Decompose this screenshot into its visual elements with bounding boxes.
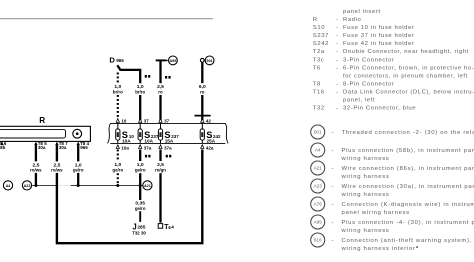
svg-text:10: 10 — [121, 119, 127, 124]
svg-text:58b: 58b — [0, 145, 6, 150]
svg-text:-: - — [336, 25, 339, 31]
fuse S237 (right) — [158, 123, 179, 143]
junction T8/5 wire — [34, 184, 37, 187]
svg-text:ro/ws: ro/ws — [30, 168, 42, 173]
fuse S237 (left) — [138, 123, 159, 143]
node D965 label — [109, 56, 124, 65]
svg-text:-: - — [336, 17, 339, 23]
wire 6,0 ro from 501 to fuse S242 — [201, 62, 203, 122]
svg-text:ro/gn: ro/gn — [155, 167, 166, 172]
svg-text:3-Pin Connector: 3-Pin Connector — [343, 57, 395, 63]
junction A21 wire — [139, 184, 142, 187]
svg-text:panel, left: panel, left — [343, 98, 375, 104]
dotted wire D to fuse S10 — [117, 73, 119, 120]
svg-text:37: 37 — [164, 119, 170, 124]
node A23 — [22, 181, 31, 190]
svg-text:37: 37 — [144, 119, 150, 124]
svg-text:for connectors, in plenum cham: for connectors, in plenum chamber, left — [343, 73, 468, 79]
svg-text:Fuse 37 in fuse holder: Fuse 37 in fuse holder — [343, 33, 415, 39]
legend node 501 — [311, 125, 325, 139]
svg-text:10A: 10A — [144, 139, 153, 144]
svg-text:-: - — [332, 238, 335, 244]
svg-text:ro: ro — [158, 89, 163, 94]
svg-text:Data Link Connector (DLC), bel: Data Link Connector (DLC), below instru- — [343, 90, 474, 96]
terminal arrow 37a (left) — [139, 145, 152, 151]
svg-text:Plus connection (58b), in inst: Plus connection (58b), in instrument pan… — [342, 148, 474, 154]
svg-text:T6: T6 — [313, 65, 321, 71]
svg-text:A99: A99 — [314, 220, 323, 225]
legend node A99 — [311, 215, 325, 229]
threaded connection symbol 501 — [200, 58, 204, 62]
connection line A23 to A21 — [32, 185, 143, 187]
svg-text:15A: 15A — [165, 139, 174, 144]
svg-text:Fuse 10 in fuse holder: Fuse 10 in fuse holder — [343, 25, 415, 31]
svg-text:-: - — [336, 57, 339, 63]
svg-text:ro: ro — [200, 89, 205, 94]
svg-text:R: R — [39, 116, 45, 125]
fuse S10 — [116, 123, 135, 143]
svg-text:Connection (anti-theft warning: Connection (anti-theft warning system), … — [342, 238, 474, 244]
svg-text:S237: S237 — [313, 33, 329, 39]
terminal arrow 37 (left) — [139, 119, 150, 124]
svg-text:A21: A21 — [144, 184, 151, 188]
svg-text:-: - — [332, 130, 335, 136]
legend node A21 — [311, 161, 325, 175]
wire S237 upper segment — [139, 95, 141, 122]
wire label 1,0 br/ro (right) — [135, 84, 145, 94]
wire T8/5 to A23 line (2,5 ro/ws) — [35, 145, 37, 185]
wire 2,5 ro from A99 bar to fuse S237 — [159, 60, 161, 121]
wire label 1,0 ge/ro (dotted) — [112, 162, 123, 172]
svg-text:T16: T16 — [313, 90, 325, 96]
svg-text:panel insert: panel insert — [343, 9, 381, 15]
svg-text:T32: T32 — [313, 106, 325, 112]
radio pin T8/6 — [0, 141, 7, 150]
svg-text:br/ro: br/ro — [135, 89, 145, 94]
top border line — [0, 18, 213, 20]
wire T8/4 to A23 line (1,0 ge/ro) — [77, 145, 79, 185]
svg-text:Radio: Radio — [343, 17, 362, 23]
wire A21 to J285 (0,35 ge/ro) — [139, 211, 141, 222]
radio R box — [0, 116, 90, 142]
svg-text:Connection (K-diagnosis wire): Connection (K-diagnosis wire) in instrum… — [342, 202, 474, 208]
junction T8/4 wire — [77, 184, 80, 187]
svg-text:-: - — [336, 33, 339, 39]
svg-text:wiring harness interior●: wiring harness interior● — [341, 244, 420, 252]
svg-text:10a: 10a — [121, 145, 129, 150]
svg-text:-: - — [336, 106, 339, 112]
svg-text:-: - — [336, 41, 339, 47]
svg-text:S242: S242 — [313, 41, 329, 47]
svg-text:A4: A4 — [315, 148, 321, 153]
svg-text:A99: A99 — [170, 59, 177, 63]
leader to A99 — [167, 59, 169, 61]
svg-text:T2a: T2a — [313, 49, 325, 55]
svg-text:S10: S10 — [313, 25, 325, 31]
radio pin T8/7 — [55, 141, 68, 150]
asterisk marks ** (upper right) — [165, 76, 171, 79]
svg-text:-: - — [332, 184, 335, 190]
terminal J285 T32/30 — [132, 222, 146, 235]
svg-text:42: 42 — [206, 119, 212, 124]
connector T6/4 — [158, 224, 174, 231]
svg-text:Wire connection (86s), in inst: Wire connection (86s), in instrument pan… — [342, 166, 474, 172]
svg-text:501: 501 — [207, 59, 213, 63]
svg-text:A76: A76 — [314, 202, 323, 207]
svg-text:6-Pin Connector, brown, in pro: 6-Pin Connector, brown, in protective ho… — [343, 65, 474, 71]
wire from D jog to fuse S237 (1,0 br/ro) — [117, 65, 140, 83]
svg-text:ge/ro: ge/ro — [112, 167, 123, 172]
svg-text:ge/ro: ge/ro — [135, 206, 146, 211]
svg-text:A23: A23 — [314, 184, 323, 189]
svg-text:-: - — [336, 65, 339, 71]
wire label 0,35 ge/ro — [135, 200, 146, 210]
svg-text:616: 616 — [314, 238, 322, 243]
legend node 616 — [311, 233, 325, 247]
wire label 2,5 ro/gn — [155, 162, 166, 172]
svg-text:30a: 30a — [38, 145, 46, 150]
svg-text:Double Connector, near headlig: Double Connector, near headlight, right — [343, 49, 469, 55]
fuse holder band — [108, 123, 229, 143]
svg-text:panel wiring harness: panel wiring harness — [342, 210, 410, 216]
svg-text:-: - — [336, 49, 339, 55]
svg-text:-: - — [332, 202, 335, 208]
svg-text:A21: A21 — [314, 166, 323, 171]
wire label 1,0 ge/ro (pin4) — [73, 162, 84, 172]
svg-text:30a: 30a — [59, 145, 67, 150]
svg-text:-: - — [332, 148, 335, 154]
svg-text:-: - — [332, 220, 335, 226]
asterisk marks ** (upper left) — [145, 75, 151, 78]
svg-text:-: - — [336, 90, 339, 96]
terminal arrow 37a (right) — [159, 145, 172, 151]
node A99 — [169, 56, 178, 65]
wire S237 to T6/4 (2,5 ro/gn) — [159, 150, 161, 223]
svg-text:25A: 25A — [207, 139, 216, 144]
svg-text:10A: 10A — [122, 139, 131, 144]
svg-text:A23: A23 — [24, 184, 31, 188]
svg-text:wiring harness: wiring harness — [341, 228, 390, 234]
leader to 501 — [204, 59, 205, 61]
asterisk marks ** (lower left) — [145, 155, 151, 158]
svg-text:wiring harness: wiring harness — [341, 156, 390, 162]
svg-text:Threaded connection -2- (30) o: Threaded connection -2- (30) on the rela… — [342, 130, 474, 136]
wire label 2,5 ro — [157, 84, 164, 94]
wire label 1,0 ge/ro — [135, 162, 146, 172]
svg-text:ge/ro: ge/ro — [73, 168, 84, 173]
wire S237 to A21 (1,0 ge/ro) — [139, 150, 141, 201]
svg-text:D: D — [109, 56, 115, 65]
svg-text:32-Pin Connector, blue: 32-Pin Connector, blue — [343, 106, 416, 112]
legend component list — [313, 9, 474, 112]
plus connection bar (A99) — [156, 59, 167, 61]
dotted wire S10 to A21 node (1,0 ge/ro) — [117, 150, 119, 185]
svg-text:wiring harness: wiring harness — [341, 192, 390, 198]
terminal arrow 42a — [201, 145, 214, 151]
svg-text:Fuse 42 in fuse holder: Fuse 42 in fuse holder — [343, 41, 415, 47]
node A21 — [143, 181, 152, 190]
svg-text:R: R — [313, 17, 318, 23]
svg-text:501: 501 — [314, 130, 322, 135]
svg-text:-: - — [336, 82, 339, 88]
legend node A23 — [311, 179, 325, 193]
svg-text:965: 965 — [116, 58, 124, 63]
terminal arrow 37 (right) — [159, 119, 170, 124]
svg-text:Wire connection (30a), in inst: Wire connection (30a), in instrument pan… — [342, 184, 474, 190]
svg-text:-: - — [332, 166, 335, 172]
legend node A76 — [311, 197, 325, 211]
legend node A4 — [311, 143, 325, 157]
wire label 1,0 br/ro (left) — [113, 84, 123, 94]
terminal arrow 10 — [116, 119, 127, 124]
svg-text:ro/ws: ro/ws — [51, 168, 63, 173]
svg-text:4: 4 — [171, 224, 174, 229]
wire label 2,5 ro/ws (pin7) — [51, 162, 63, 172]
fuse S242 — [200, 123, 221, 143]
terminal arrow 42 — [201, 119, 212, 124]
radio pin T8/4 — [77, 141, 90, 150]
svg-text:37a: 37a — [144, 145, 152, 150]
svg-text:8-Pin Connector: 8-Pin Connector — [343, 82, 395, 88]
connection crossbar on 6,0 wire — [195, 115, 211, 117]
svg-text:T8: T8 — [313, 82, 321, 88]
svg-text:42a: 42a — [206, 145, 214, 150]
svg-text:br/ro: br/ro — [113, 89, 123, 94]
junction dotted wire — [116, 184, 119, 187]
faint line gap segment — [58, 185, 70, 187]
svg-text:37a: 37a — [164, 145, 172, 150]
node A4 — [3, 181, 12, 190]
svg-text:Plus connection -4- (30), in i: Plus connection -4- (30), in instrument … — [342, 220, 474, 226]
node 501 — [205, 56, 214, 65]
terminal arrow 10a — [116, 145, 129, 151]
wire label 2,5 ro/ws (pin5) — [30, 162, 42, 172]
asterisk marks ** (lower right) — [166, 155, 172, 158]
svg-text:T32 30: T32 30 — [132, 230, 146, 235]
radio pin T8/5 — [34, 141, 47, 150]
svg-text:T3c: T3c — [313, 57, 325, 63]
wire label 6,0 ro — [199, 84, 206, 94]
wire S242 to radio T8/7 (bottom route) — [57, 145, 202, 243]
svg-text:965: 965 — [80, 145, 88, 150]
svg-text:ge/ro: ge/ro — [135, 167, 146, 172]
svg-text:wiring harness: wiring harness — [341, 174, 390, 180]
